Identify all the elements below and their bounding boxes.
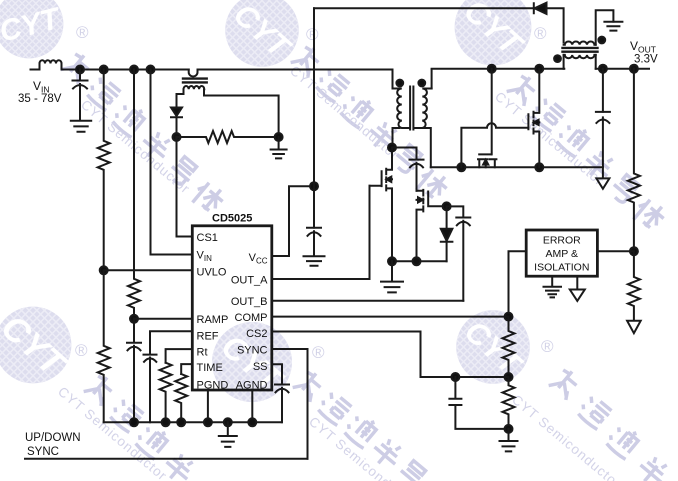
wire T1 left winding bottom to Q1 drain [393,128,400,148]
node dot CS2 cap junction [451,373,459,381]
node phase dot T1 left [396,80,403,87]
node dot snubber ground junction [275,133,283,141]
svg-text:CS1: CS1 [197,232,218,244]
node dot output cap junction [599,65,607,73]
transformer T1 right winding [415,89,432,129]
wire CS1 feed [177,137,193,237]
wm badge G1 top-left [0,0,113,67]
svg-text:®: ® [534,24,547,43]
svg-text:ERROR: ERROR [543,235,581,247]
node dot PGND rail [204,418,212,426]
ground (aux snubber) [271,137,287,158]
wire clamp cap feed [392,148,417,160]
wire COMP line [272,316,509,318]
node dot ramp cap rail [130,418,138,426]
node dot RAMP junction [130,315,138,323]
capacitor C3 (VCC storage, polarized) [307,228,321,256]
choke T2 top winding [564,41,596,44]
wm badge G3 left-bottom [0,297,127,393]
node dot AGND rail [248,418,256,426]
wire top bias line [314,7,534,9]
svg-text:SYNC: SYNC [27,446,59,458]
transistor Q2 (active clamp, gate right) [417,190,447,261]
svg-text:®: ® [306,25,319,44]
transformer T1 left lead top [392,70,394,89]
node dot divider bottom junction [505,425,513,433]
wire VIN pin [151,70,193,255]
transformer T1 left winding [393,89,410,129]
wire rail end to secondary ground [602,69,604,179]
resistor R5 (Rt) [160,363,172,423]
node phase dot T2 top-right [598,37,605,44]
node dot Q2 gate node [443,202,451,210]
wire rectifier bottom rail [431,166,603,168]
wm badge G5 right-bottom [403,301,583,393]
wire REF pin [150,331,192,354]
choke T2 bottom winding [564,55,596,58]
svg-text:®: ® [75,341,88,360]
wire secondary top rail [432,68,649,70]
transistor Q4 (freewheel sync rect, gate left) [528,69,539,168]
svg-text:UP/DOWN: UP/DOWN [25,432,81,444]
transformer T3 primary (rail dip) [189,70,198,77]
wire TIME pin [181,364,192,374]
node dot Q2 source junction [413,257,421,265]
svg-text:3.3V: 3.3V [634,54,658,66]
ground (IC rail) [219,422,237,447]
node dot aux/CS1 junction [173,133,181,141]
ground triangle (secondary, rail end) [596,178,609,188]
transformer T1 core [410,87,413,130]
wire error amp right [597,250,634,252]
node dot RAMP column junction [130,66,138,74]
wm badge G4 top-right [399,0,587,75]
resistor R2 (UVLO bottom) [98,270,110,422]
resistor R11 (comp divider bottom) [503,377,515,429]
node dot COMP junction [505,313,513,321]
wire UVLO pin [104,269,193,271]
svg-text:Rt: Rt [197,347,208,359]
transistor Q1 (main switch, gate left) [370,148,393,262]
wire VCC pin to storage cap [272,186,314,256]
ground (primary return) [381,261,403,292]
wire SS pin [272,364,282,384]
capacitor C5 (OUT_B coupling, polarized) [447,206,471,300]
capacitor C9 (CS2 filter) [449,377,508,429]
resistor R10 (comp divider top) [503,317,515,377]
transformer T3 core [183,79,207,83]
wire AGND pin [251,390,253,422]
ground (bias winding) [604,22,622,31]
inductor L1 (input) [31,60,62,69]
node dot VCC cap junction [310,182,318,190]
node dot UVLO junction [100,266,108,274]
svg-text:CD5025: CD5025 [212,213,252,225]
node dot UVLO column junction [100,66,108,74]
svg-text:®: ® [76,23,89,42]
wire bias vertical [313,8,315,227]
capacitor C8 (SS, polarized) [275,385,289,423]
wm chars S1 [61,50,228,217]
wire PGND pin [207,390,209,422]
wire choke top right lead to ground [596,10,614,45]
node phase dot T1 right [418,80,425,87]
node dot Q1 source junction [388,257,396,265]
resistor R1 (UVLO top) [98,70,110,271]
node dot Q3 gate feed junction [488,65,496,73]
node dot divider mid junction [505,373,513,381]
resistor R6 (TIME) [175,374,187,422]
svg-text:OUT_B: OUT_B [231,296,268,308]
svg-text:REF: REF [197,331,219,343]
svg-text:VOUT: VOUT [630,39,656,55]
node dot VIN pin column junction [147,66,155,74]
wire RAMP pin [134,318,192,320]
wire VIN rail (primary, y=69) [62,69,393,71]
ground (input cap) [71,121,91,132]
wm chars S3 [84,372,198,481]
wm badge G5c center-bottom [154,312,350,412]
svg-text:®: ® [541,337,554,356]
svg-text:UVLO: UVLO [197,267,227,279]
svg-text:COMP: COMP [235,312,268,324]
ground (comp divider) [500,429,518,452]
resistor R8 (VOUT divider top) [628,69,640,252]
wire Q3 gate feed (line A) [491,69,493,155]
svg-text:®: ® [312,343,325,362]
ground triangle (below R9) [627,321,641,334]
wm chars S2 [291,43,452,204]
resistor R9 (VOUT divider bottom) [628,251,640,320]
wire T1 right lead top [431,70,433,89]
wire OUT_A to Q1 gate [272,186,370,279]
diode D2 (aux rectifier) [171,108,182,117]
choke T2 core [563,48,598,52]
resistor R4 (RAMP) [128,70,140,319]
wm chars S6 [549,366,672,481]
resistor R3 (aux snubber, horizontal) [177,131,279,143]
wm chars S5 [293,368,429,481]
svg-text:RAMP: RAMP [197,314,229,326]
capacitor C2 (RAMP, polarized) [127,319,141,423]
wm badge G2 top-center [172,0,352,76]
svg-text:35 - 78V: 35 - 78V [18,93,62,105]
wire cross-coupled gate line B with hop [461,123,528,167]
wm chars S4 [507,72,669,234]
wire UP/DOWN SYNC line [25,458,308,460]
wire bias line right / choke top left lead [547,8,564,42]
block IC CD5025 [192,226,271,390]
transformer T3 secondary winding [184,86,205,89]
capacitor C4 (clamp, polarized) [410,160,424,191]
capacitor C7 (REF, polarized) [144,355,157,423]
wire Rt pin [166,349,193,363]
node dot VOUT divider junction [630,65,638,73]
transistor Q3 (sync rect, lying) [478,154,496,167]
ground triangle (error amp) [570,276,585,301]
diode D3 (gate clamp) [441,206,453,240]
wire primary return [392,260,447,262]
wire T3 secondary right lead [204,89,279,137]
wire OUT_B to coupling cap [272,300,464,302]
wire T1 right winding bottom to rect rail [423,128,431,167]
node dot Q4 source junction [535,163,543,171]
node dot Q4 drain junction [535,65,543,73]
wire choke bottom leads [564,55,596,69]
node dot Q1 drain / clamp junction [388,144,396,152]
wire error amp left to COMP node [509,251,527,316]
node dot ground stub rail [224,418,232,426]
wire T3 secondary left lead [177,89,184,107]
diode D1 (bias, pointing left) [534,3,547,14]
ground (error amp, 4 bars) [544,276,562,297]
wire CS2 path [272,332,509,378]
ground (VCC cap) [304,256,325,266]
svg-text:AMP &: AMP & [546,248,578,260]
wire SYNC pin [272,349,308,459]
node dot Rt rail [162,418,170,426]
wire analog ground rail [104,421,282,423]
node dot Q3 cross gate junction [457,163,465,171]
capacitor C1 (input, polarized) [73,70,88,121]
node dot error amp out junction [630,247,638,255]
svg-text:ISOLATION: ISOLATION [534,262,589,274]
node dot TIME rail [177,418,185,426]
capacitor C6 (output, polarized) [596,112,610,123]
block ERROR AMP & ISOLATION [526,230,597,276]
svg-text:OUT_A: OUT_A [231,275,268,287]
node phase dot T2 bottom-left [554,55,561,62]
node dot input cap junction [76,66,84,74]
